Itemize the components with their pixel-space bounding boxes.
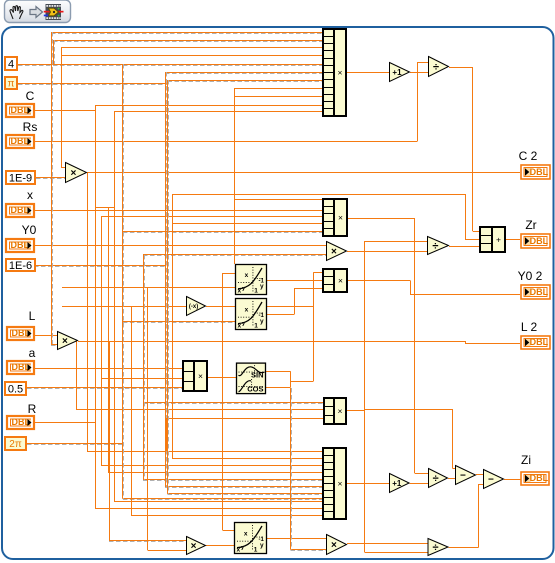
wire terminal R feeder	[35, 422, 95, 424]
wire trunk	[101, 216, 103, 466]
sine cosine icon	[237, 363, 266, 394]
svg-text:Zi: Zi	[521, 453, 531, 467]
svg-text:C 2: C 2	[519, 149, 538, 163]
wire L 2 jog riser	[465, 341, 467, 343]
wire compound1 output to increment1	[346, 72, 389, 74]
wire dashed bus near compound5 cell8	[123, 499, 323, 500]
wire terminal x to compound2 cell2	[35, 210, 323, 212]
svg-text:Y0: Y0	[22, 223, 37, 237]
wire terminal C jogged run to compound1 cell11	[95, 105, 323, 107]
wire compound3 output	[347, 280, 410, 282]
svg-text:2π: 2π	[9, 439, 22, 450]
svg-text:x: x	[237, 547, 241, 554]
multiply node 3	[58, 332, 78, 350]
power-of-x icon 2	[236, 299, 267, 330]
svg-text:×: ×	[198, 371, 203, 381]
wire terminal L to multiply3	[35, 335, 58, 337]
constant 1E-9	[6, 171, 35, 184]
svg-text:1: 1	[254, 288, 258, 295]
wire riser to divide2 top	[365, 241, 428, 243]
constant 2pi	[5, 437, 26, 450]
indicator terminal Zi	[521, 472, 549, 485]
multiply node 1	[66, 163, 87, 183]
wire constant 2pi feeder	[27, 444, 123, 445]
wire jog from riser into sincos elbow	[290, 381, 314, 383]
compound arithmetic node 3 (multiply)	[323, 269, 347, 292]
wire compound4 output	[346, 410, 365, 412]
svg-text:×: ×	[338, 213, 343, 223]
wire riser to compound1 and compound2	[234, 88, 236, 264]
wire multiply1 output to C 2 indicator	[87, 172, 520, 174]
wire terminal Y0 to multiply2 top	[35, 245, 326, 247]
wire riser to subtract1	[452, 409, 454, 469]
wire multiply3 output jog to L 2 indicator	[465, 343, 520, 345]
svg-text:−: −	[488, 475, 494, 486]
wire riser into compound-add cell2	[465, 239, 480, 241]
indicator terminal L 2	[521, 336, 550, 349]
control terminal L	[7, 327, 34, 340]
wire short riser below compound4	[166, 418, 168, 451]
wire divide1 result into compound-add cell1	[473, 231, 480, 233]
svg-text:y: y	[260, 318, 264, 325]
constant pi	[5, 77, 17, 90]
wire divide4 output riser	[449, 547, 479, 549]
wire wire to power icon1 input2	[62, 287, 235, 289]
wire power icon riser	[222, 273, 224, 530]
wire increment1 output to divide1	[410, 72, 428, 74]
svg-text:x: x	[245, 306, 249, 313]
subtract node 1	[456, 466, 476, 485]
wire trunk	[108, 208, 110, 473]
wire dashed trunk	[166, 72, 167, 487]
wire dashed bus to multiply5 bottom	[291, 550, 327, 551]
constant 1E-6	[6, 259, 35, 272]
svg-text:π: π	[8, 79, 15, 90]
svg-text:÷: ÷	[433, 473, 439, 485]
wire constant pi feeder	[18, 84, 168, 85]
wire stub into subtract1 top	[453, 468, 456, 470]
compound arithmetic node 2 (multiply)	[323, 199, 347, 236]
control terminal C	[6, 104, 34, 117]
wire constant 1E-9 to multiply1	[36, 178, 65, 179]
svg-text:DBL: DBL	[530, 337, 549, 347]
wire C and Rs branch riser	[61, 48, 63, 168]
wire power icon2 output to compound3 cell3	[294, 288, 323, 290]
wire dashed bus to compound5 cell7	[168, 494, 324, 495]
increment node 1	[390, 63, 410, 82]
svg-text:1: 1	[254, 547, 258, 554]
wire riser to power icon1 input	[223, 273, 236, 275]
wire terminal Rs long feeder to divide1 riser	[35, 141, 418, 143]
svg-text:×: ×	[191, 541, 197, 552]
wire dashed bus to multiply2 bottom	[143, 255, 326, 256]
svg-text:+1: +1	[392, 479, 402, 488]
wire riser to compound1 cell8	[234, 88, 323, 90]
constant 4	[5, 57, 17, 70]
wire jog to Y0 2	[410, 280, 412, 294]
wire divide1 output	[449, 67, 473, 69]
power-of-x icon 1	[236, 265, 267, 295]
wire dashed bus to power icon2 input2	[123, 322, 236, 323]
wire trunk to compound6 cell2	[101, 378, 183, 380]
increment node 2	[390, 474, 410, 493]
wire riser to power icon3 input1	[223, 530, 235, 532]
svg-text:×: ×	[338, 276, 343, 286]
svg-text:(-x): (-x)	[189, 304, 198, 310]
svg-text:x: x	[244, 530, 248, 537]
svg-text:1: 1	[254, 323, 258, 330]
wire sincos elbow	[290, 371, 292, 387]
divide node 4	[428, 539, 448, 556]
svg-text:1E-6: 1E-6	[9, 260, 32, 272]
wire long trunk	[172, 194, 174, 458]
wire constant 4 to compound1 cell5	[18, 65, 323, 66]
compound arithmetic node 7 (multiply)	[183, 361, 207, 391]
svg-text:R: R	[28, 402, 37, 416]
svg-text:DBL: DBL	[530, 287, 549, 297]
svg-text:0.5: 0.5	[8, 383, 23, 395]
wire cross wire to adder riser	[172, 194, 465, 196]
wire riser corner to compound2 cell1	[235, 199, 324, 201]
wire trunk to multiply4	[109, 341, 111, 540]
wire riser joining compound3 cell1	[313, 272, 315, 381]
multiply node 4	[187, 537, 206, 555]
wire compound2 output	[347, 218, 415, 220]
compound arithmetic node 5 (multiply)	[323, 448, 346, 519]
wire riser to compound1 cell9	[234, 96, 323, 98]
wire trunk to compound1 cell12	[114, 111, 323, 113]
svg-text:+1: +1	[392, 68, 402, 77]
indicator terminal Y0 2	[521, 285, 550, 299]
wire wire to compound4 cell3	[167, 418, 325, 420]
wire terminal C feeder	[35, 110, 95, 112]
svg-text:DBL: DBL	[530, 236, 549, 246]
wire riser to compound-add	[465, 194, 467, 239]
toolbar filmstrip icon	[44, 4, 64, 20]
wire left dashed trunk	[52, 32, 53, 344]
svg-text:y: y	[260, 542, 264, 549]
divide node 1	[429, 57, 449, 77]
svg-text:÷: ÷	[432, 240, 438, 252]
wire power icon1 output to compound3 cell2	[267, 280, 323, 282]
wire left dashed trunk 2	[54, 40, 55, 64]
wire dashed bus to compound2 cell5	[123, 232, 323, 233]
divide node 2	[428, 237, 449, 255]
svg-text:DBL: DBL	[11, 136, 30, 146]
wire trunk to compound5 cell4	[108, 472, 323, 474]
wire compound5 output to increment2	[346, 483, 389, 485]
multiply node 5	[327, 535, 347, 555]
wire trunk to compound5 cell8	[114, 501, 323, 503]
wire riser to divide1 top	[418, 62, 429, 64]
wire branch to compound3 cell1	[314, 272, 324, 274]
wire trunk	[131, 306, 133, 515]
control terminal R	[7, 416, 34, 429]
wire multiply2 output to divide2 bottom	[347, 251, 427, 253]
toolbar hand tool icon	[10, 6, 23, 19]
wire subtract1 output to subtract2	[476, 474, 483, 476]
wire trunk to multiply4 top	[109, 541, 186, 542]
svg-text:×: ×	[331, 540, 337, 551]
svg-text:×: ×	[331, 247, 337, 258]
wire trunk to compound5 cell10	[131, 515, 323, 517]
svg-text:÷: ÷	[432, 542, 438, 554]
wire multiply1 output trunk	[87, 172, 89, 451]
wire pi bus to compound1 cell7	[168, 81, 324, 82]
wire bridge between trunks	[95, 207, 114, 209]
indicator terminal C 2	[521, 165, 550, 179]
wire Rs branch to multiply1 top input	[61, 167, 65, 169]
wire divide2 output to compound-add cell3	[449, 246, 480, 248]
wire riser to divide4 bottom	[365, 552, 428, 554]
wire trunk from C jog	[95, 105, 97, 508]
wire dashed bus to compound5 cell5	[143, 480, 323, 481]
wire constant 1E-6 feeder	[27, 266, 165, 267]
wire elbow to compound2 cell4	[172, 223, 323, 225]
svg-text:x: x	[238, 323, 242, 330]
svg-text:L 2: L 2	[521, 320, 538, 334]
svg-text:Rs: Rs	[23, 120, 38, 134]
svg-text:SIN: SIN	[251, 371, 264, 380]
svg-text:×: ×	[70, 168, 76, 179]
wire const 4 bus to compound1 cell1	[51, 33, 323, 34]
svg-text:4: 4	[8, 58, 14, 70]
svg-text:Y0 2: Y0 2	[518, 269, 543, 283]
svg-text:+: +	[496, 235, 501, 245]
compound arithmetic node 1 (multiply)	[323, 29, 346, 116]
wire divide4 output riser	[478, 484, 480, 548]
svg-text:a: a	[29, 346, 36, 360]
wire long trunk	[114, 112, 116, 502]
control terminal Rs	[6, 135, 34, 148]
wire compound6 output to sincos	[207, 377, 236, 379]
divide node 3	[429, 469, 448, 488]
svg-text:DBL: DBL	[11, 240, 30, 250]
wire R trunk to compound5 cell9	[95, 508, 323, 510]
indicator terminal Zr	[521, 234, 550, 248]
control terminal Y0	[6, 239, 34, 252]
svg-text:÷: ÷	[433, 61, 439, 73]
compound arithmetic node 6 (add)	[480, 227, 505, 252]
wire subtract2 output to Zi indicator	[504, 479, 521, 481]
svg-text:×: ×	[338, 479, 343, 489]
constant 0.5	[5, 382, 26, 395]
wire divide1 output drop	[472, 67, 474, 231]
multiply node 2	[327, 242, 347, 261]
wire bus to compound1 cell6	[165, 73, 323, 74]
svg-text:DBL: DBL	[530, 473, 549, 483]
wire multiply4 output to power icon3	[206, 545, 234, 547]
svg-text:Zr: Zr	[525, 218, 536, 232]
wire compound2 output drop to divide3	[414, 218, 416, 473]
wire trunk to compound5 cell1	[87, 451, 323, 453]
wire long riser from divide2 top to divide4	[364, 241, 366, 552]
svg-text:COS: COS	[247, 385, 263, 394]
wire increment2 output to divide3	[410, 483, 428, 485]
wire wire to compound4 cell2	[76, 409, 324, 411]
wire trunk	[147, 288, 149, 551]
wire Rs riser to divide1	[417, 62, 419, 141]
wire Rs branch to compound1 cell4	[61, 55, 323, 57]
wire wire to subtract riser	[365, 409, 453, 411]
wire trunk to compound5 cell3	[101, 465, 323, 467]
svg-text:1E-9: 1E-9	[9, 172, 32, 184]
wire dashed trunk from constant 4	[123, 64, 124, 499]
svg-text:C: C	[26, 89, 35, 103]
svg-text:L: L	[29, 309, 36, 323]
wire dashed bus to compound4 cell1	[143, 403, 324, 404]
wire negate output to power icon2	[206, 306, 236, 308]
svg-text:y: y	[260, 283, 264, 290]
wire dashed bus to compound5 cell6	[165, 487, 323, 488]
wire power icon2 elbow	[294, 288, 296, 314]
wire riser stub to subtract2 bottom	[479, 484, 484, 486]
svg-text:DBL: DBL	[11, 105, 30, 115]
power-of-x icon 3	[235, 523, 267, 554]
svg-text:x: x	[238, 288, 242, 295]
wire power icon2 output elbow	[267, 314, 294, 316]
svg-text:x: x	[245, 272, 249, 279]
wire sin output	[266, 371, 291, 373]
negate node	[187, 297, 206, 316]
svg-text:DBL: DBL	[11, 205, 30, 215]
wire dashed trunk	[144, 255, 145, 480]
wire riser to divide3 top	[415, 473, 428, 475]
wire multiply5 output to divide4	[347, 543, 428, 545]
svg-text:×: ×	[62, 336, 68, 347]
wire dashed bus to multiply3 bottom	[51, 345, 58, 346]
wire trunk to multiply4 bottom	[148, 550, 186, 552]
wire branch from multiply3 output	[76, 341, 78, 409]
wire trunk to compound2 cell3	[101, 216, 323, 218]
wire divide3 output to subtract1	[448, 478, 455, 480]
wire central dashed trunk	[291, 388, 292, 550]
svg-text:DBL: DBL	[530, 167, 549, 177]
toolbar run arrow icon	[30, 7, 43, 18]
wire dashed trunk from pi	[168, 80, 169, 494]
svg-text:×: ×	[338, 68, 343, 78]
wire wire to Y0 2 indicator	[410, 294, 520, 296]
wire cos output	[266, 387, 291, 389]
svg-text:−: −	[460, 471, 466, 482]
control terminal x	[6, 204, 34, 217]
wire power icon3 output to multiply5	[267, 538, 326, 540]
subtract node 2	[484, 470, 504, 489]
wire wire into negate node	[62, 306, 186, 308]
svg-text:×: ×	[338, 406, 343, 416]
wire power icon2 upper output	[267, 306, 314, 308]
wire terminal a to compound6 cell1	[35, 368, 183, 370]
wire C branch to compound1 cell3	[61, 47, 323, 49]
wire compound-add output to Zr indicator	[505, 239, 520, 241]
compound arithmetic node 4 (multiply)	[324, 398, 346, 424]
control terminal a	[7, 361, 34, 374]
wire constant 0.5 to compound6 cell3	[27, 388, 183, 389]
svg-text:x: x	[27, 188, 33, 202]
wire bus to compound1 cell2	[53, 41, 323, 42]
wire trunk to compound5 cell2	[172, 458, 323, 460]
wire multiply3 output	[78, 341, 465, 343]
